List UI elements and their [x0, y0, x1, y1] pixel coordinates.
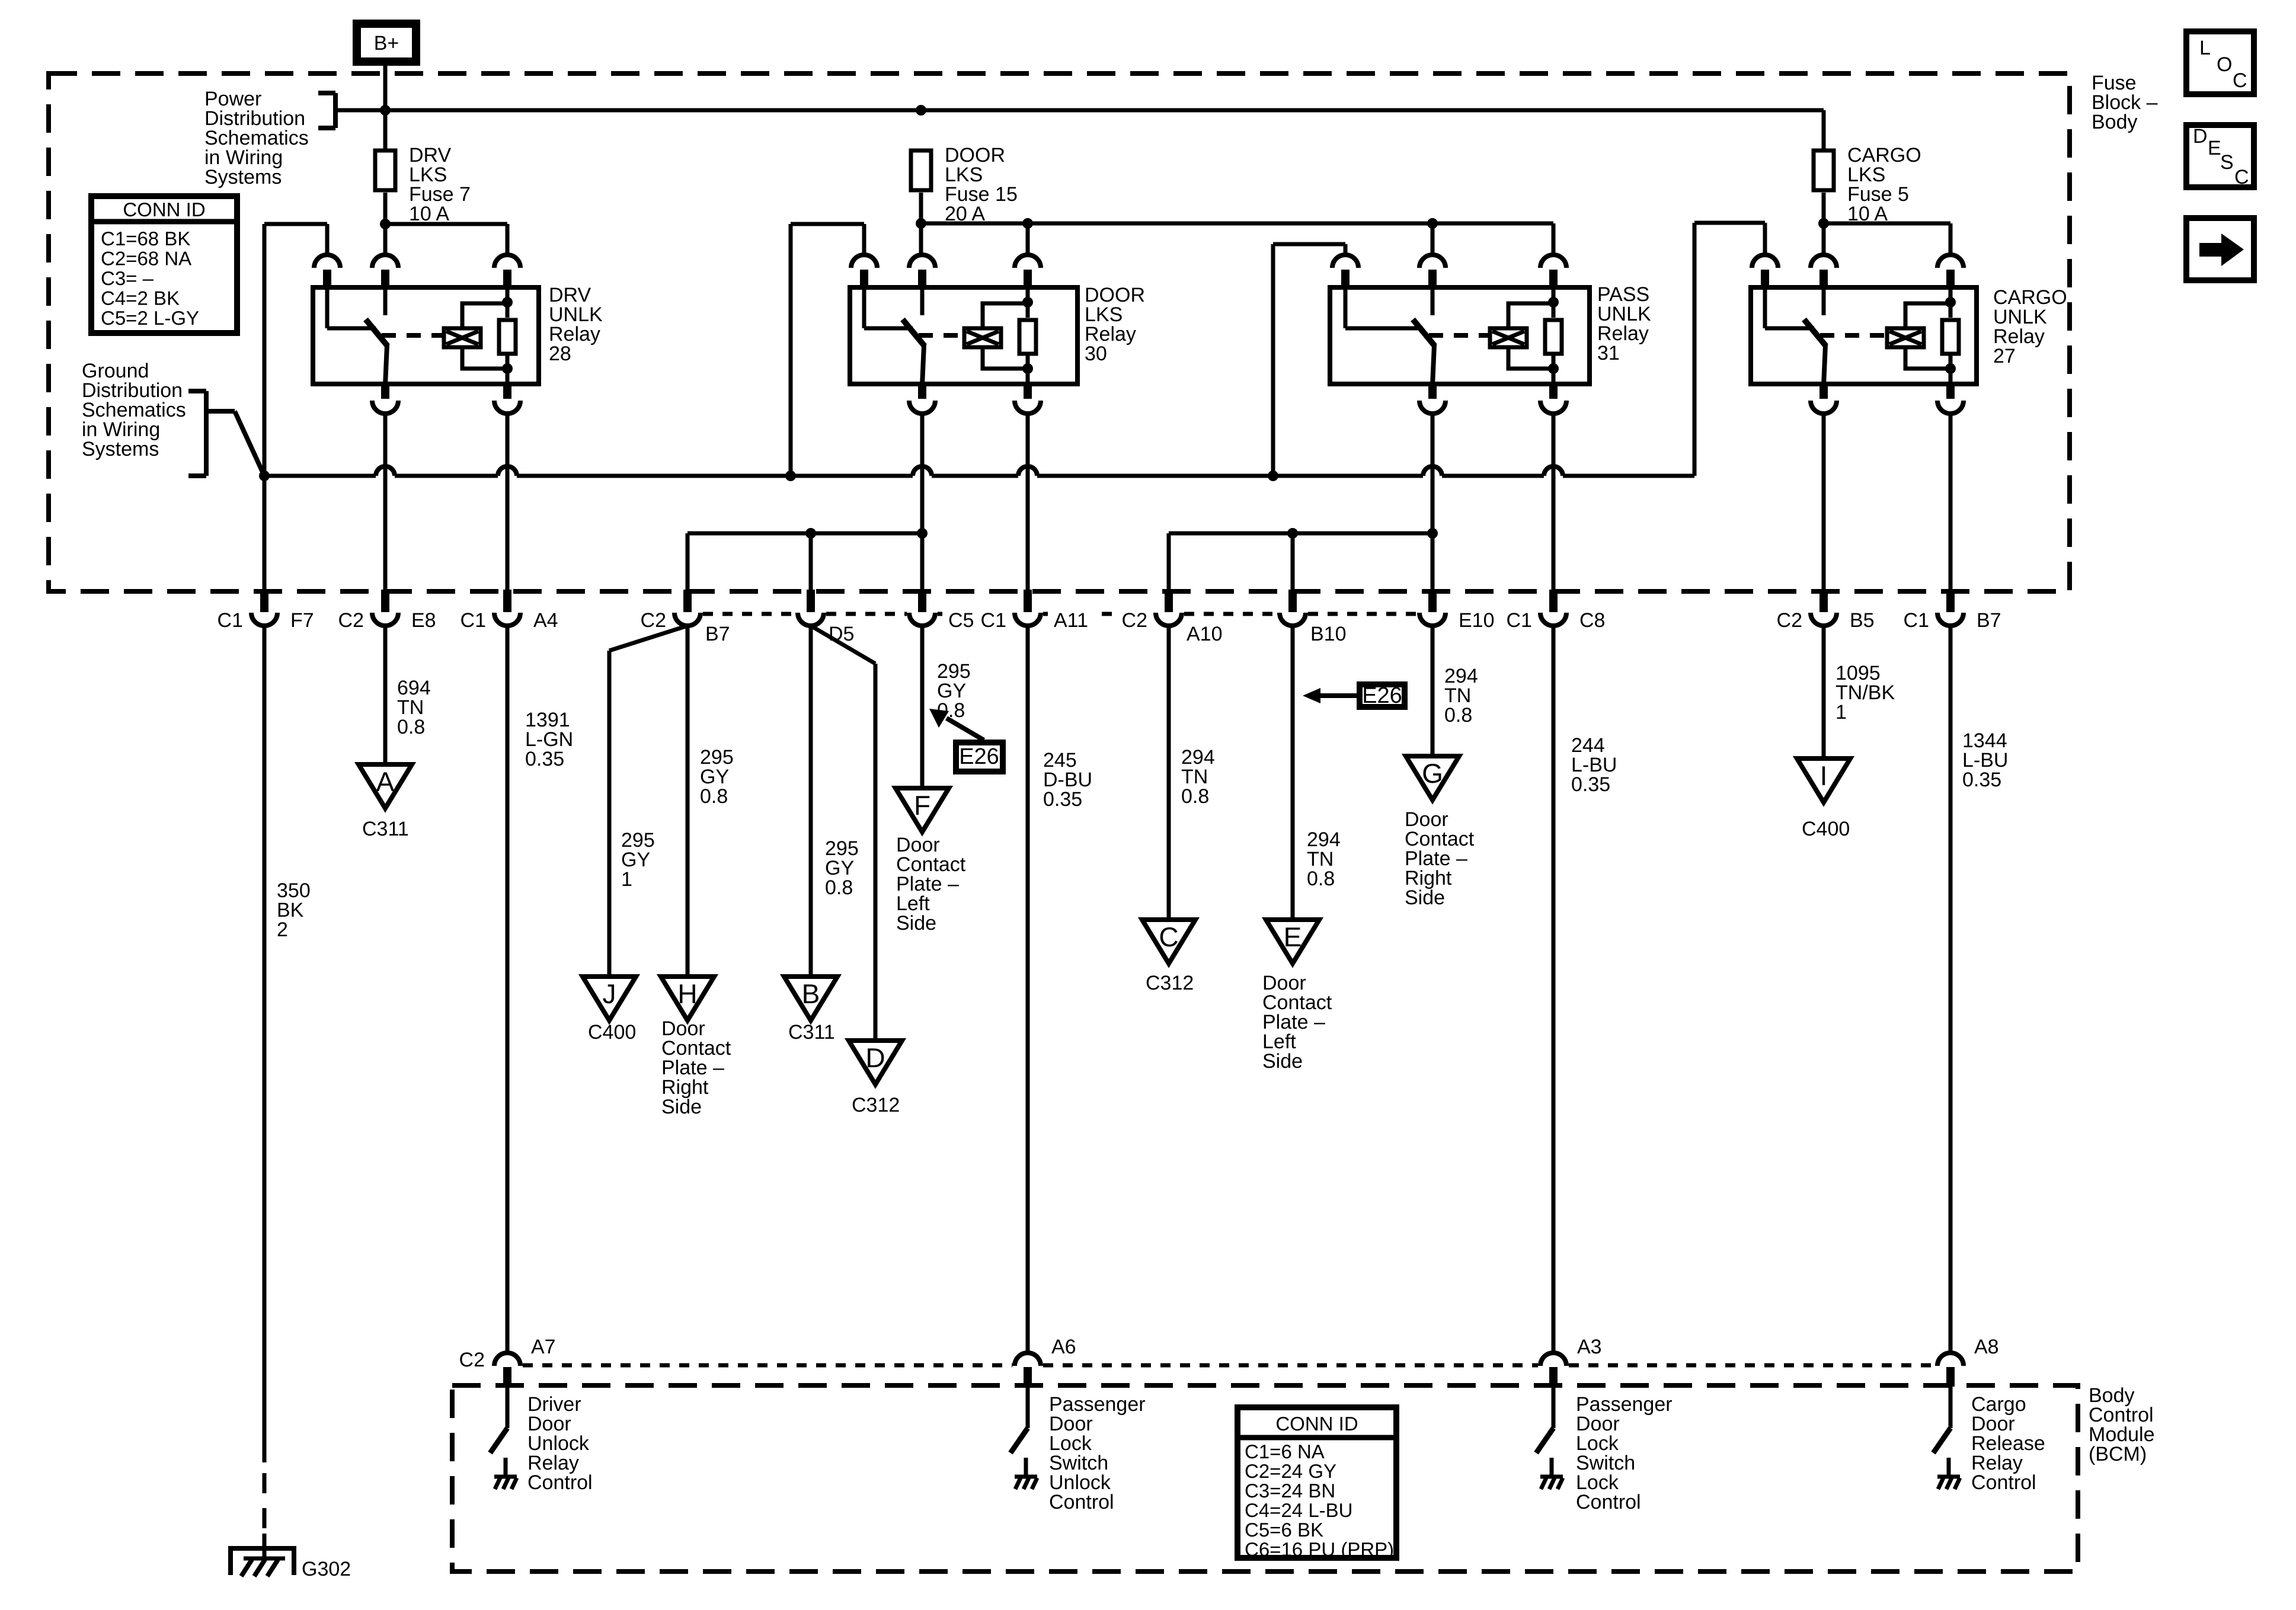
svg-text:A: A	[376, 766, 395, 797]
relay K30 switch	[862, 289, 866, 328]
svg-text:C1: C1	[1904, 609, 1929, 632]
relay K30 resistor	[1026, 289, 1030, 318]
svg-text:J: J	[603, 978, 616, 1009]
svg-text:H: H	[677, 978, 697, 1009]
svg-text:1: 1	[1835, 701, 1847, 724]
svg-text:A7: A7	[531, 1336, 556, 1358]
junction fuse5 feeder	[1818, 218, 1829, 229]
svg-text:A8: A8	[1974, 1336, 1999, 1358]
relay K28 coil link (dashed)	[382, 333, 446, 338]
wire 1344 L-BU 0.35	[1949, 626, 1953, 1353]
label A11	[1048, 610, 1094, 631]
wire fuse5 feeder to CARGO relay	[1822, 193, 1826, 255]
BCM driver output A3	[1552, 1387, 1556, 1428]
svg-text:0.8: 0.8	[1307, 868, 1335, 890]
wire 244 L-BU 0.35	[1552, 626, 1556, 1353]
wire fuse7 to DRV relay feeder	[383, 193, 388, 255]
relay K31 pin 1 (switch feed)	[1332, 255, 1358, 268]
svg-text:Control: Control	[527, 1471, 593, 1494]
svg-text:C312: C312	[1146, 972, 1194, 994]
svg-text:0.35: 0.35	[525, 748, 564, 770]
relay K31 coil link (dashed)	[1429, 333, 1492, 338]
relay K30 coil link (dashed)	[919, 333, 966, 338]
legend box DESC	[2186, 125, 2254, 187]
wire 350 BK inside fuse block (x=446)	[263, 224, 267, 591]
connector cavity E8 at fuse block edge	[381, 590, 389, 612]
wire DRV ground bridge	[264, 222, 327, 226]
svg-text:C3=24 BN: C3=24 BN	[1245, 1480, 1335, 1502]
wire diagonal D5 to D branch	[811, 626, 875, 664]
fuse CARGO LKS Fuse 5	[1814, 151, 1834, 190]
svg-text:10 A: 10 A	[409, 203, 449, 225]
label E10	[1453, 610, 1500, 631]
svg-text:B: B	[802, 978, 820, 1009]
wire DOOR coil out (245)	[1026, 414, 1030, 591]
svg-text:Side: Side	[1405, 886, 1445, 909]
svg-text:C1: C1	[461, 609, 486, 632]
svg-text:Side: Side	[661, 1096, 702, 1118]
svg-text:C8: C8	[1579, 609, 1605, 632]
junction ground bus / DOOR bridge	[785, 470, 796, 481]
connector triangle E	[1266, 920, 1319, 964]
fuse DRV LKS Fuse 7	[375, 151, 395, 190]
wire CARGO ground bridge / bus riser	[1694, 221, 1765, 225]
junction B+ / bus	[380, 105, 391, 116]
wire PASS switch out (294)	[1431, 414, 1435, 591]
svg-text:S: S	[2220, 151, 2234, 174]
svg-text:C1: C1	[1507, 609, 1532, 632]
svg-text:A11: A11	[1054, 609, 1088, 632]
dotted connector line between B7..E10	[703, 612, 795, 616]
svg-text:1: 1	[621, 868, 632, 891]
wire 295 GY 0.8 to B	[809, 626, 813, 977]
table CONN ID (fuse block)	[91, 196, 237, 333]
ground (BCM internal) A6	[1024, 1458, 1028, 1477]
svg-text:Control: Control	[1971, 1471, 2036, 1494]
junction K30 coil bottom	[1022, 363, 1033, 374]
relay DRV UNLK Relay 28	[313, 287, 539, 384]
svg-text:28: 28	[549, 343, 571, 365]
svg-text:E: E	[2208, 137, 2221, 159]
svg-text:C5: C5	[948, 609, 974, 632]
Body Control Module dashed outline	[452, 1385, 2078, 1571]
junction 295 GY / D5 drop	[805, 528, 816, 539]
connector triangle J	[583, 977, 636, 1020]
legend box LOC	[2186, 31, 2254, 94]
relay K31 pin 2 (switch common)	[1419, 255, 1446, 268]
svg-text:0.8: 0.8	[825, 876, 853, 899]
power bus (Power Distribution)	[335, 108, 1824, 113]
BCM driver output A7	[506, 1387, 510, 1428]
svg-text:E26: E26	[1362, 683, 1402, 708]
svg-text:C400: C400	[1802, 818, 1850, 840]
svg-text:C1: C1	[981, 609, 1006, 632]
connector cavity D5 at fuse block edge	[807, 590, 815, 612]
bracket power distribution	[318, 91, 335, 95]
connector triangle H	[661, 977, 714, 1020]
relay K30 bottom pin (switch out)	[918, 383, 926, 399]
svg-text:F: F	[914, 790, 930, 821]
fuse DOOR LKS Fuse 15	[911, 151, 931, 190]
relay K28 bottom pin (coil out)	[503, 383, 511, 399]
svg-text:B7: B7	[1977, 609, 2001, 632]
connector cavity F7 at fuse block edge	[260, 590, 268, 612]
svg-text:C311: C311	[362, 818, 409, 840]
ground G302	[231, 1548, 294, 1575]
relay CARGO UNLK Relay 27	[1751, 287, 1977, 384]
svg-text:2: 2	[277, 918, 288, 941]
Fuse Block - Body dashed outline	[49, 73, 2070, 591]
svg-text:B10: B10	[1310, 623, 1347, 645]
relay K28 coil	[462, 303, 507, 327]
svg-text:C2: C2	[1122, 609, 1147, 632]
svg-text:C6=16 PU (PRP): C6=16 PU (PRP)	[1245, 1538, 1394, 1560]
relay K27 coil	[1905, 303, 1950, 327]
relay K27 pin 1 (switch feed)	[1752, 255, 1778, 268]
junction 295 GY / C5 wire	[917, 528, 928, 539]
svg-text:C: C	[2233, 69, 2247, 92]
svg-text:(BCM): (BCM)	[2089, 1443, 2147, 1465]
wire 294 TN 0.8 to E	[1291, 626, 1295, 920]
svg-text:C1=6 NA: C1=6 NA	[1245, 1441, 1325, 1462]
svg-text:D: D	[865, 1042, 885, 1073]
svg-text:Side: Side	[1262, 1050, 1303, 1073]
connector BCM pin A3	[1540, 1353, 1566, 1366]
relay K30 pin 3 (coil)	[1015, 255, 1041, 268]
svg-text:0.35: 0.35	[1962, 769, 2001, 791]
wire 294 TN 0.8 to G	[1431, 626, 1435, 756]
svg-text:A10: A10	[1187, 623, 1223, 645]
svg-text:30: 30	[1085, 343, 1107, 365]
svg-text:E: E	[1284, 921, 1302, 952]
connector cavity C5 at fuse block edge	[918, 590, 926, 612]
relay K30 coil	[983, 303, 1028, 327]
connector cavity B10 at fuse block edge	[1288, 590, 1297, 612]
svg-text:B7: B7	[705, 623, 730, 645]
wire 245 D-BU 0.35	[1026, 626, 1030, 1353]
wire 350 BK 2 to G302	[263, 626, 267, 1462]
wire DRV switch out (694)	[383, 414, 388, 591]
wire B+ to power bus	[383, 66, 388, 149]
relay K30 pin 2 (switch common)	[909, 255, 935, 268]
svg-text:0.8: 0.8	[1444, 704, 1472, 726]
bracket ground distribution	[188, 389, 206, 393]
connector triangle G	[1406, 756, 1459, 800]
svg-text:C2: C2	[1777, 609, 1802, 632]
svg-text:C312: C312	[852, 1094, 900, 1116]
svg-text:0.8: 0.8	[397, 716, 425, 738]
relay K31 bottom pin (coil out)	[1549, 383, 1558, 399]
junction feeder / PASS pin2	[1427, 218, 1438, 229]
svg-text:C400: C400	[588, 1021, 636, 1044]
connector cavity A10 at fuse block edge	[1165, 590, 1173, 612]
junction K27 coil bottom	[1945, 363, 1956, 374]
relay K28 bottom pin (switch out)	[381, 383, 389, 399]
label C5	[942, 610, 980, 631]
wire 1095 TN/BK 1 to I	[1822, 626, 1826, 758]
connector cavity B7 at fuse block edge	[1946, 590, 1955, 612]
wire diagonal B7 to J branch	[609, 626, 687, 651]
wire DRV coil out (1391)	[506, 414, 510, 591]
connector cavity B5 at fuse block edge	[1819, 590, 1828, 612]
svg-text:B+: B+	[374, 32, 399, 55]
connector BCM pin A6	[1015, 1353, 1041, 1366]
svg-text:E26: E26	[959, 744, 999, 769]
label C2	[635, 610, 672, 631]
svg-text:O: O	[2217, 53, 2232, 76]
junction K27 coil top	[1945, 297, 1956, 308]
svg-text:L: L	[2199, 37, 2211, 59]
relay K30 bottom pin (coil out)	[1024, 383, 1032, 399]
svg-text:A3: A3	[1577, 1336, 1602, 1358]
svg-text:E10: E10	[1459, 609, 1495, 632]
relay K31 switch	[1344, 289, 1348, 328]
svg-text:C2=24 GY: C2=24 GY	[1245, 1460, 1336, 1482]
wire CARGO coil out (1344)	[1949, 414, 1953, 591]
junction K31 coil bottom	[1548, 363, 1559, 374]
battery feed B+ box	[357, 24, 416, 62]
ground bus (y=803)	[264, 474, 376, 478]
wire PASS coil out (244)	[1552, 414, 1556, 591]
wire bracket diagonal to ground bus	[235, 411, 264, 476]
svg-text:C5=2 L-GY: C5=2 L-GY	[101, 307, 199, 329]
relay K28 pin 2 (switch common)	[372, 255, 398, 268]
connector BCM pin A8	[1937, 1353, 1964, 1366]
svg-text:B5: B5	[1850, 609, 1875, 632]
svg-text:31: 31	[1597, 342, 1620, 364]
legend box arrow	[2186, 218, 2254, 280]
relay K27 switch	[1763, 289, 1767, 328]
svg-text:0.35: 0.35	[1043, 788, 1082, 811]
junction feeder / DOOR pin3	[1022, 218, 1033, 229]
relay K28 resistor	[506, 289, 510, 318]
svg-text:Control: Control	[1049, 1491, 1114, 1513]
junction 294 TN / E10 wire	[1427, 528, 1438, 539]
svg-text:0.8: 0.8	[1181, 785, 1209, 808]
connector triangle D	[849, 1041, 902, 1084]
dotted connector line BCM C2	[523, 1363, 1012, 1368]
connector cavity B7 at fuse block edge	[683, 590, 692, 612]
splice callout E26 (right)	[1360, 684, 1405, 707]
relay K27 resistor	[1949, 289, 1953, 318]
connector triangle F	[896, 788, 949, 832]
distribution line 294 TN (A10/B10 tap of E10 wire)	[1169, 532, 1432, 536]
svg-text:CONN ID: CONN ID	[123, 199, 205, 220]
distribution line 295 GY (B7/D5 tap of C5 wire)	[687, 532, 922, 536]
connector cavity A4 at fuse block edge	[503, 590, 511, 612]
svg-text:0.8: 0.8	[700, 785, 728, 808]
ground (BCM internal) A7	[504, 1458, 508, 1477]
wire bus to CARGO fuse	[1822, 110, 1826, 149]
relay PASS UNLK Relay 31	[1330, 287, 1590, 384]
wire 294 TN 0.8 to C	[1167, 626, 1171, 920]
wire DOOR ground bridge	[791, 222, 864, 226]
junction K28 coil top	[502, 297, 513, 308]
relay K27 coil link (dashed)	[1820, 333, 1889, 338]
wire 295 GY 0.8 to F	[920, 626, 925, 788]
wire PASS ground bridge	[1273, 242, 1345, 247]
svg-text:G302: G302	[302, 1558, 351, 1580]
connector triangle B	[784, 977, 837, 1020]
svg-text:C: C	[2234, 166, 2249, 188]
svg-text:C2: C2	[459, 1349, 485, 1371]
relay K27 bottom pin (switch out)	[1819, 383, 1828, 399]
svg-text:A6: A6	[1051, 1336, 1076, 1358]
svg-text:Systems: Systems	[82, 438, 159, 460]
svg-text:C311: C311	[788, 1021, 835, 1044]
connector cavity A11 at fuse block edge	[1024, 590, 1032, 612]
relay K31 bottom pin (switch out)	[1428, 383, 1437, 399]
svg-text:C1=68 BK: C1=68 BK	[101, 228, 190, 249]
junction fuse15 feeder	[916, 218, 926, 229]
BCM driver output A8	[1949, 1387, 1953, 1428]
relay K31 pin 3 (coil)	[1540, 255, 1566, 268]
svg-text:G: G	[1422, 758, 1443, 789]
svg-text:C3= –: C3= –	[101, 267, 154, 289]
relay K27 pin 3 (coil)	[1937, 255, 1964, 268]
svg-text:Side: Side	[896, 912, 936, 934]
relay K28 switch	[325, 289, 330, 328]
splice callout E26 (left)	[956, 742, 1003, 772]
relay K27 bottom pin (coil out)	[1946, 383, 1955, 399]
connector triangle C	[1142, 920, 1195, 964]
junction bus / DOOR LKS fuse	[916, 105, 926, 116]
junction ground bus / 350 BK wire	[259, 470, 270, 481]
connector cavity E10 at fuse block edge	[1428, 590, 1437, 612]
svg-text:A4: A4	[533, 609, 558, 632]
svg-text:E8: E8	[411, 609, 436, 632]
wire 694 TN 0.8	[383, 626, 388, 764]
wire 1391 L-GN 0.35	[506, 626, 510, 1353]
svg-text:I: I	[1820, 760, 1828, 791]
svg-text:C2: C2	[338, 609, 364, 632]
relay K28 pin 3 (coil)	[494, 255, 520, 268]
svg-text:Body: Body	[2092, 111, 2138, 133]
svg-text:Systems: Systems	[204, 166, 282, 188]
junction K31 coil top	[1548, 297, 1559, 308]
label C2	[1116, 610, 1153, 631]
junction ground bus / PASS bridge	[1268, 470, 1278, 481]
relay K30 pin 1 (switch feed)	[851, 255, 877, 268]
table CONN ID (BCM)	[1237, 1407, 1396, 1558]
ground (BCM internal) A3	[1550, 1458, 1554, 1477]
wire bracket stub	[206, 409, 235, 414]
connector triangle A	[359, 764, 412, 808]
junction K28 coil bottom	[502, 363, 513, 374]
wire CARGO switch out (1095)	[1822, 414, 1826, 591]
relay K28 pin 1 (switch feed)	[314, 255, 340, 268]
svg-text:C2: C2	[641, 609, 666, 632]
connector triangle I	[1797, 758, 1850, 802]
ground (BCM internal) A8	[1947, 1458, 1951, 1477]
label C1	[975, 610, 1012, 631]
wire DOOR switch out (295)	[920, 414, 925, 591]
svg-text:0.35: 0.35	[1571, 773, 1610, 796]
svg-text:D: D	[2193, 125, 2208, 148]
wire fuse15 feeder to DOOR and PASS relays	[919, 193, 923, 255]
BCM driver output A6	[1026, 1387, 1030, 1428]
svg-text:Control: Control	[1576, 1491, 1641, 1513]
junction fuse7 feeder	[380, 219, 391, 229]
svg-text:C1: C1	[218, 609, 243, 632]
svg-text:CONN ID: CONN ID	[1275, 1413, 1358, 1435]
wire 295 GY 0.8 to H	[686, 626, 690, 977]
connector BCM pin A7	[494, 1353, 520, 1366]
junction 294 TN / B10 drop	[1287, 528, 1298, 539]
svg-text:C4=2 BK: C4=2 BK	[101, 287, 180, 309]
svg-text:27: 27	[1993, 345, 2016, 367]
relay K31 coil	[1508, 303, 1553, 327]
relay K31 resistor	[1552, 289, 1556, 318]
svg-text:C4=24 L-BU: C4=24 L-BU	[1245, 1499, 1353, 1521]
junction K30 coil top	[1022, 297, 1033, 308]
svg-text:C2=68 NA: C2=68 NA	[101, 248, 191, 270]
connector cavity C8 at fuse block edge	[1549, 590, 1558, 612]
svg-text:C5=6 BK: C5=6 BK	[1245, 1519, 1323, 1541]
svg-text:C: C	[1159, 921, 1178, 952]
relay DOOR LKS Relay 30	[850, 287, 1077, 384]
relay K27 pin 2 (switch common)	[1811, 255, 1837, 268]
svg-text:F7: F7	[290, 609, 314, 632]
